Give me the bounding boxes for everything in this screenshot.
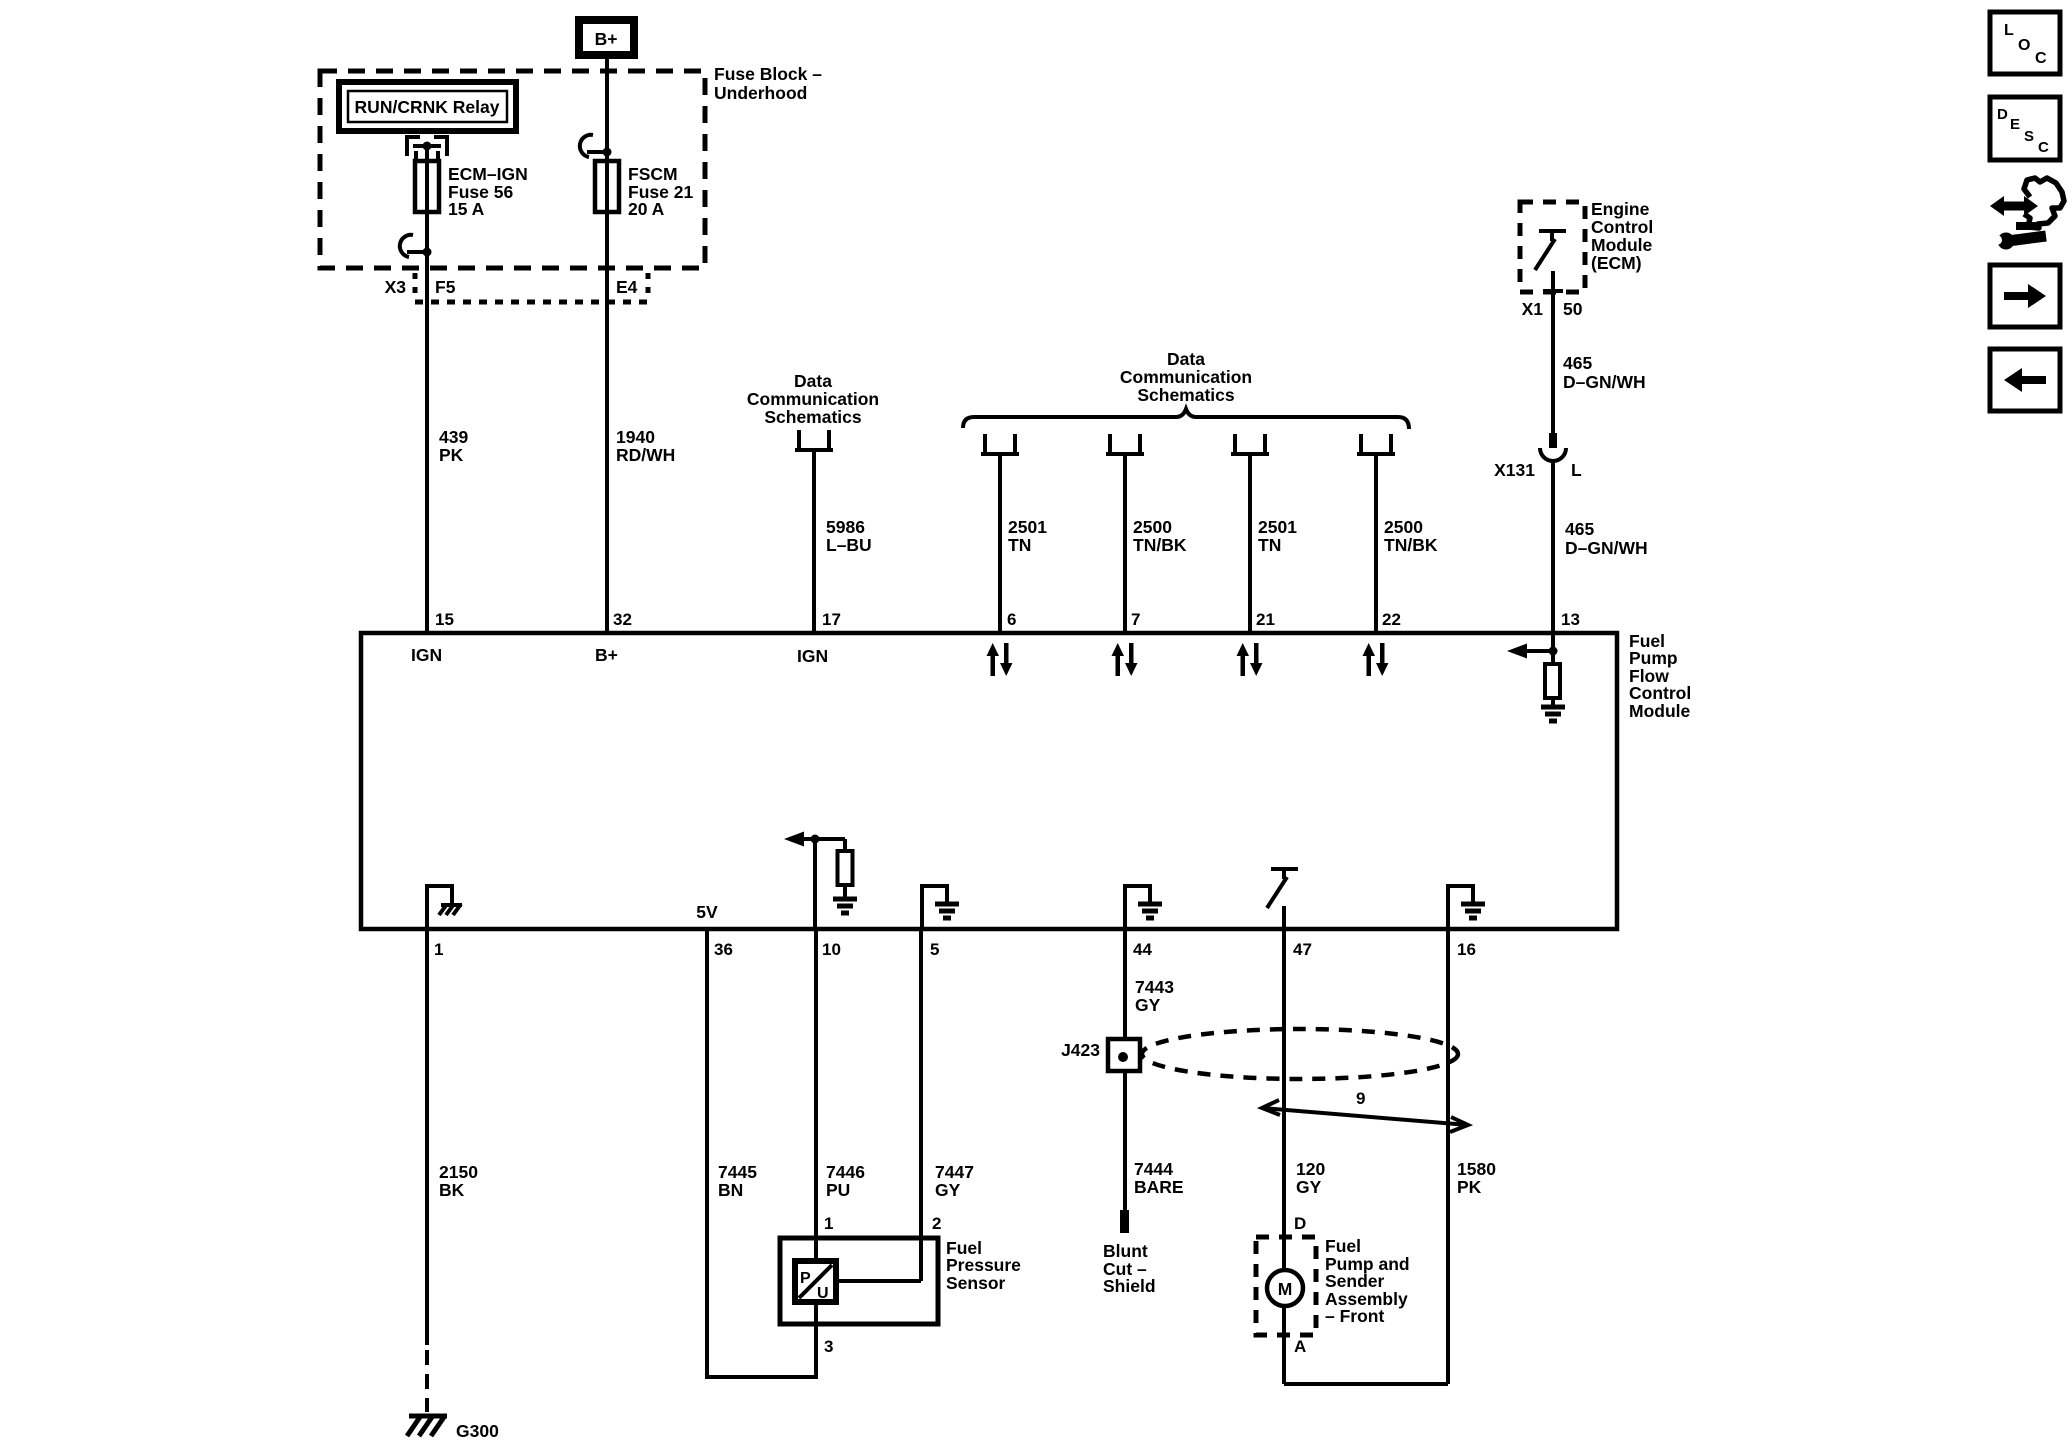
svg-text:G300: G300	[456, 1421, 499, 1441]
svg-text:A: A	[1294, 1337, 1306, 1356]
svg-text:44: 44	[1133, 940, 1152, 959]
svg-text:U: U	[817, 1285, 829, 1302]
svg-text:1580: 1580	[1457, 1159, 1496, 1179]
svg-text:(ECM): (ECM)	[1591, 253, 1642, 273]
svg-text:2501: 2501	[1258, 517, 1297, 537]
svg-text:15: 15	[435, 610, 454, 629]
svg-text:GY: GY	[935, 1180, 961, 1200]
svg-text:Data: Data	[1167, 349, 1205, 369]
svg-text:Shield: Shield	[1103, 1276, 1156, 1296]
svg-text:2150: 2150	[439, 1162, 478, 1182]
svg-text:– Front: – Front	[1325, 1306, 1384, 1326]
svg-text:L–BU: L–BU	[826, 535, 872, 555]
svg-text:15 A: 15 A	[448, 199, 485, 219]
svg-text:5: 5	[930, 940, 939, 959]
svg-text:1: 1	[434, 940, 443, 959]
svg-text:IGN: IGN	[411, 645, 442, 665]
svg-text:RUN/CRNK Relay: RUN/CRNK Relay	[355, 97, 500, 117]
svg-text:7: 7	[1131, 610, 1140, 629]
svg-text:BK: BK	[439, 1180, 465, 1200]
svg-text:50: 50	[1563, 299, 1583, 319]
svg-text:Module: Module	[1629, 701, 1691, 721]
svg-text:L: L	[1571, 460, 1582, 480]
svg-text:2500: 2500	[1133, 517, 1172, 537]
svg-text:S: S	[2024, 128, 2034, 145]
svg-text:2500: 2500	[1384, 517, 1423, 537]
svg-text:9: 9	[1356, 1089, 1365, 1108]
svg-text:L: L	[2004, 22, 2014, 39]
svg-text:22: 22	[1382, 610, 1401, 629]
svg-text:X1: X1	[1522, 299, 1544, 319]
svg-text:BN: BN	[718, 1180, 743, 1200]
svg-text:PK: PK	[439, 445, 464, 465]
svg-text:120: 120	[1296, 1159, 1325, 1179]
svg-text:Blunt: Blunt	[1103, 1241, 1148, 1261]
svg-text:6: 6	[1007, 610, 1016, 629]
svg-text:PU: PU	[826, 1180, 850, 1200]
svg-text:J423: J423	[1061, 1040, 1100, 1060]
svg-text:20 A: 20 A	[628, 199, 665, 219]
svg-text:RD/WH: RD/WH	[616, 445, 675, 465]
svg-text:7443: 7443	[1135, 977, 1174, 997]
svg-text:GY: GY	[1296, 1177, 1322, 1197]
svg-text:Sender: Sender	[1325, 1271, 1385, 1291]
svg-text:FSCM: FSCM	[628, 164, 678, 184]
svg-text:GY: GY	[1135, 995, 1161, 1015]
svg-text:E: E	[2010, 116, 2020, 133]
svg-text:Pump: Pump	[1629, 648, 1678, 668]
svg-text:Control: Control	[1629, 683, 1691, 703]
svg-text:47: 47	[1293, 940, 1312, 959]
svg-text:Data: Data	[794, 371, 832, 391]
svg-text:Underhood: Underhood	[714, 83, 807, 103]
svg-text:Schematics: Schematics	[1137, 385, 1235, 405]
svg-text:Module: Module	[1591, 235, 1653, 255]
svg-text:ECM–IGN: ECM–IGN	[448, 164, 528, 184]
svg-text:465: 465	[1563, 353, 1592, 373]
svg-text:B+: B+	[595, 29, 618, 49]
svg-text:3: 3	[824, 1337, 833, 1356]
svg-text:2: 2	[932, 1214, 941, 1233]
svg-text:Control: Control	[1591, 217, 1653, 237]
svg-text:1: 1	[824, 1214, 833, 1233]
svg-text:BARE: BARE	[1134, 1177, 1184, 1197]
svg-text:5V: 5V	[696, 902, 718, 922]
svg-text:7445: 7445	[718, 1162, 757, 1182]
svg-text:7447: 7447	[935, 1162, 974, 1182]
svg-text:Communication: Communication	[747, 389, 879, 409]
svg-text:Fuel: Fuel	[1325, 1236, 1361, 1256]
svg-text:TN: TN	[1008, 535, 1031, 555]
svg-text:M: M	[1278, 1279, 1293, 1299]
svg-text:Pressure: Pressure	[946, 1255, 1021, 1275]
svg-text:Schematics: Schematics	[764, 407, 862, 427]
svg-text:TN/BK: TN/BK	[1384, 535, 1438, 555]
svg-text:465: 465	[1565, 519, 1594, 539]
svg-text:36: 36	[714, 940, 733, 959]
svg-text:7446: 7446	[826, 1162, 865, 1182]
svg-text:D: D	[1997, 106, 2008, 123]
svg-text:C: C	[2038, 139, 2049, 156]
svg-text:7444: 7444	[1134, 1159, 1173, 1179]
svg-text:IGN: IGN	[797, 646, 828, 666]
svg-text:X3: X3	[385, 277, 407, 297]
svg-text:16: 16	[1457, 940, 1476, 959]
svg-text:Communication: Communication	[1120, 367, 1252, 387]
svg-text:17: 17	[822, 610, 841, 629]
svg-text:D–GN/WH: D–GN/WH	[1565, 538, 1648, 558]
svg-text:2501: 2501	[1008, 517, 1047, 537]
svg-text:F5: F5	[435, 277, 456, 297]
svg-text:D: D	[1294, 1214, 1306, 1233]
svg-text:Fuse Block –: Fuse Block –	[714, 64, 822, 84]
svg-text:Engine: Engine	[1591, 199, 1650, 219]
svg-text:1940: 1940	[616, 427, 655, 447]
svg-text:D–GN/WH: D–GN/WH	[1563, 372, 1646, 392]
svg-text:13: 13	[1561, 610, 1580, 629]
svg-text:21: 21	[1256, 610, 1275, 629]
svg-text:32: 32	[613, 610, 632, 629]
svg-text:E4: E4	[616, 277, 638, 297]
svg-text:10: 10	[822, 940, 841, 959]
svg-text:5986: 5986	[826, 517, 865, 537]
svg-text:X131: X131	[1494, 460, 1535, 480]
svg-text:TN: TN	[1258, 535, 1281, 555]
svg-text:TN/BK: TN/BK	[1133, 535, 1187, 555]
svg-text:Sensor: Sensor	[946, 1273, 1006, 1293]
svg-text:C: C	[2035, 50, 2047, 67]
svg-text:PK: PK	[1457, 1177, 1482, 1197]
svg-text:439: 439	[439, 427, 468, 447]
svg-text:O: O	[2018, 37, 2030, 54]
svg-text:B+: B+	[595, 645, 618, 665]
svg-text:P: P	[800, 1270, 811, 1287]
